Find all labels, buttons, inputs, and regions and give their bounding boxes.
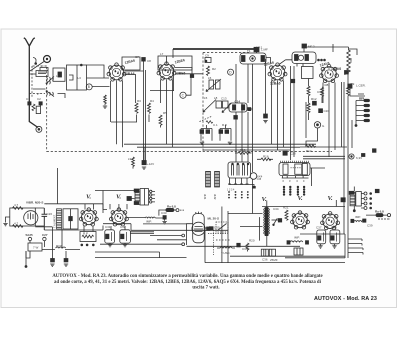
svg-text:R20: R20 [249,239,255,243]
svg-text:C33: C33 [161,211,167,215]
svg-text:R2: R2 [212,67,216,71]
svg-text:R8: R8 [325,83,329,87]
svg-text:12BE6: 12BE6 [175,72,185,76]
svg-text:V.: V. [116,194,122,201]
svg-text:L8: L8 [214,96,218,100]
svg-text:Ra 6,8: Ra 6,8 [167,205,176,209]
svg-text:MF.2: MF.2 [308,45,315,49]
svg-text:MF.1: MF.1 [256,46,263,50]
svg-text:uscita 7 watt.: uscita 7 watt. [192,286,219,291]
svg-text:ROS: ROS [56,244,63,248]
svg-text:C34: C34 [273,207,279,211]
svg-text:L5: L5 [208,76,212,80]
svg-text:C31: C31 [105,225,111,229]
svg-text:R.8: R.8 [222,123,227,127]
svg-text:C20: C20 [324,109,330,113]
svg-text:Ra 6,8: Ra 6,8 [375,210,384,214]
svg-text:T1: T1 [247,49,251,53]
svg-text:12BA6: 12BA6 [124,72,135,76]
svg-text:R12: R12 [311,97,317,101]
svg-text:T.USC.: T.USC. [221,251,231,255]
svg-text:ALT.: ALT. [359,97,365,101]
svg-text:R15: R15 [240,148,246,152]
svg-text:5A25: 5A25 [26,233,34,237]
svg-text:C28: C28 [290,152,296,156]
svg-text:C38: C38 [331,226,337,230]
svg-text:R.P.: R.P. [83,232,89,236]
svg-text:C2: C2 [37,97,41,101]
svg-text:R10: R10 [349,58,353,63]
svg-text:V.: V. [86,194,92,201]
svg-text:C.1: C.1 [213,123,218,127]
svg-text:C8: C8 [147,59,151,63]
svg-text:C14: C14 [235,100,241,104]
svg-text:L9: L9 [128,157,132,161]
svg-text:C13: C13 [221,97,227,101]
svg-text:ML 20-S: ML 20-S [208,217,219,221]
svg-text:L3: L3 [78,76,82,80]
svg-text:L.CER.: L.CER. [356,84,366,88]
svg-text:C18: C18 [317,90,323,94]
svg-text:ALT.1: ALT.1 [203,194,207,200]
svg-text:T.ALIMENT.: T.ALIMENT. [53,214,57,228]
svg-text:25MF: 25MF [270,258,278,262]
svg-text:R9: R9 [351,82,355,86]
svg-text:C37: C37 [316,226,322,230]
svg-text:R14: R14 [306,149,312,153]
svg-text:C9: C9 [205,54,209,58]
svg-text:1 2 3 4: 1 2 3 4 [227,189,235,192]
svg-text:C38: C38 [257,178,262,181]
svg-text:R4: R4 [150,99,154,103]
svg-text:C35: C35 [242,247,248,251]
svg-text:B: B [88,85,90,89]
svg-text:C7: C7 [135,55,139,59]
svg-text:C39: C39 [367,224,373,228]
svg-text:C1: C1 [26,97,30,101]
svg-text:L7: L7 [160,52,164,56]
svg-text:IMP.: IMP. [294,236,300,240]
svg-text:C32: C32 [120,225,126,229]
svg-text:ad onde corte, a 49, 41, 31 e: ad onde corte, a 49, 41, 31 e 25 metri. … [54,280,322,285]
svg-text:R3: R3 [137,99,141,103]
svg-text:C36: C36 [262,258,268,262]
svg-text:R21: R21 [283,206,289,210]
svg-text:C26: C26 [47,212,53,216]
svg-text:ALT.2: ALT.2 [213,194,217,200]
svg-text:R16: R16 [263,155,269,159]
svg-text:IMP.: IMP. [355,215,361,219]
svg-text:R5: R5 [163,111,167,115]
svg-text:7 W: 7 W [33,246,39,250]
svg-text:4,7: 4,7 [14,222,19,226]
svg-text:+12V: +12V [147,162,154,166]
svg-text:C27: C27 [42,233,48,237]
svg-text:L5: L5 [204,96,208,100]
svg-text:AUTOVOX - Mod. RA 23. Autoradi: AUTOVOX - Mod. RA 23. Autoradio con sint… [52,274,323,279]
svg-text:V.: V. [298,195,304,202]
svg-text:IMP.: IMP. [146,220,152,224]
svg-text:6,3V: 6,3V [356,156,362,160]
svg-text:V.: V. [328,195,334,202]
svg-text:4,7: 4,7 [14,203,19,207]
svg-text:C30: C30 [214,226,220,230]
svg-text:12AV6: 12AV6 [331,67,341,71]
svg-text:12BA6: 12BA6 [270,82,281,86]
svg-text:V.: V. [262,196,268,203]
svg-text:VIBR. N20-S: VIBR. N20-S [26,201,43,205]
svg-text:L1: L1 [56,74,60,78]
svg-text:AUTOVOX - Mod. RA 23: AUTOVOX - Mod. RA 23 [314,296,377,302]
